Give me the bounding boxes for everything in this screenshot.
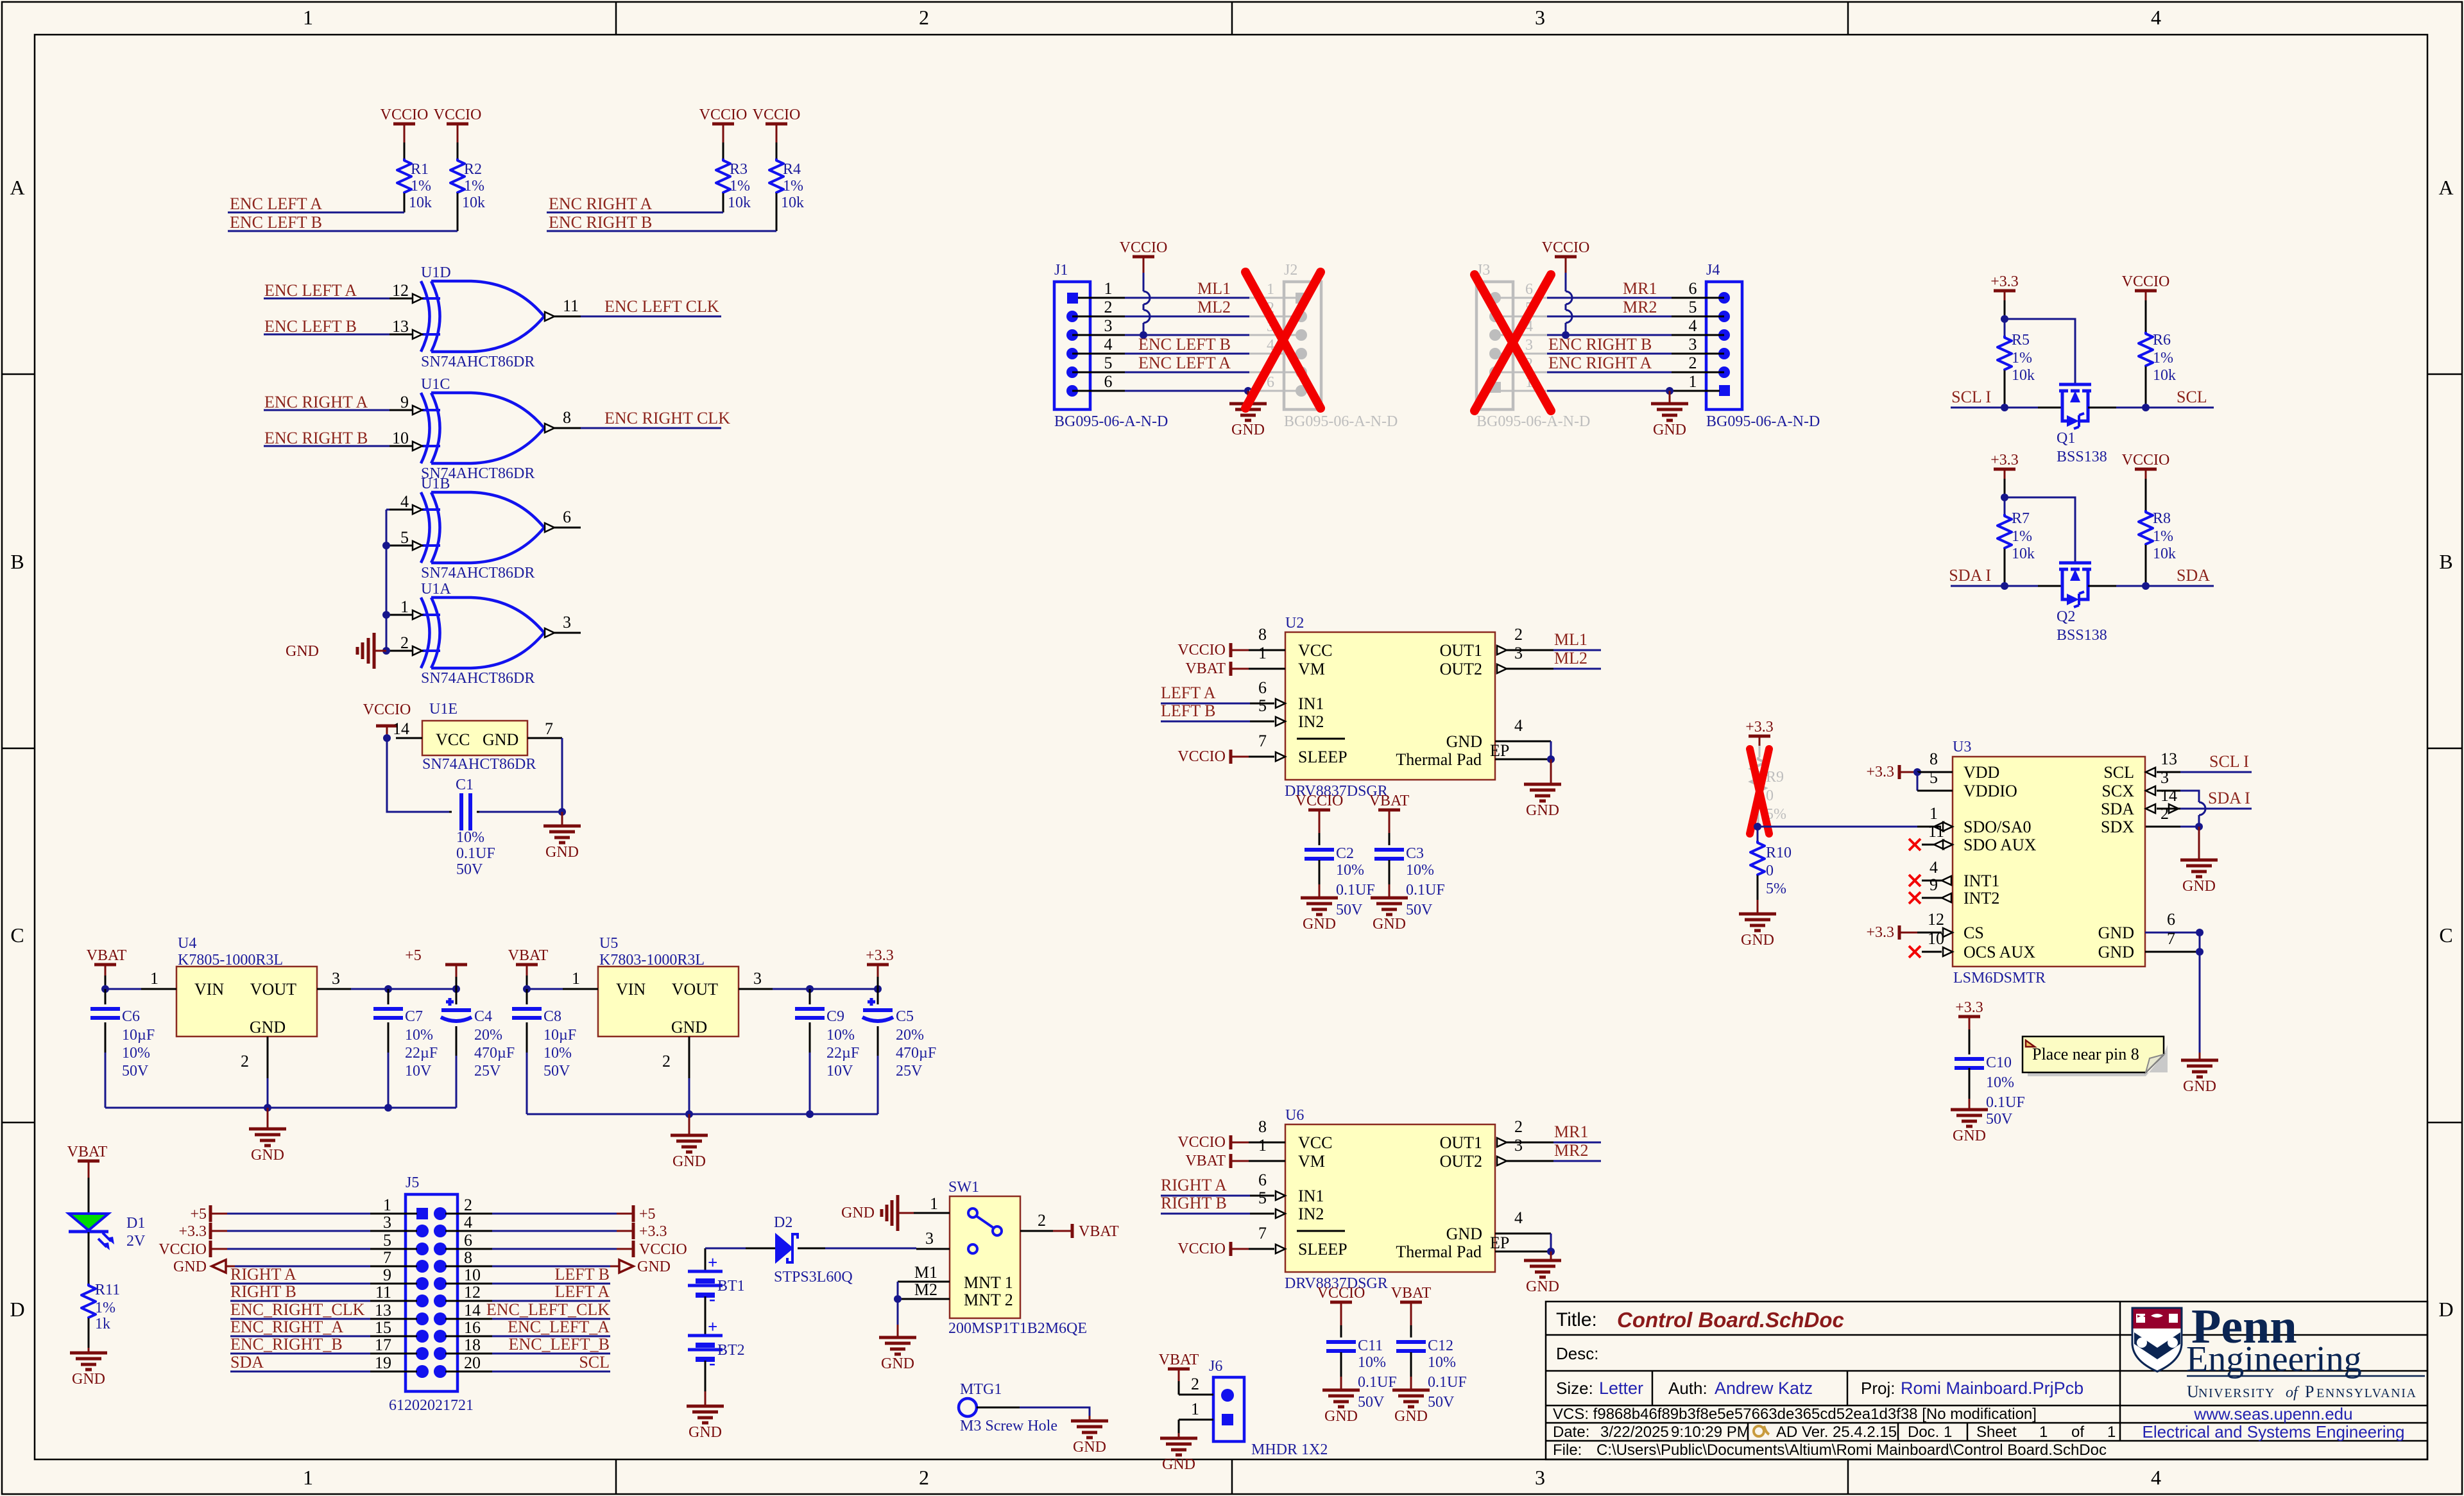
svg-text:8: 8 (464, 1248, 472, 1267)
pin 5 (1072, 372, 1125, 374)
svg-text:10k: 10k (462, 194, 485, 211)
svg-text:BG095-06-A-N-D: BG095-06-A-N-D (1476, 413, 1590, 430)
svg-text:ML1: ML1 (1197, 279, 1231, 298)
svg-text:4: 4 (1104, 335, 1113, 354)
svg-text:GND: GND (637, 1259, 671, 1275)
svg-text:U1A: U1A (421, 581, 451, 598)
resistor R4 (769, 159, 783, 193)
svg-text:14: 14 (393, 719, 409, 738)
power port VBAT (SW1) (1071, 1224, 1074, 1238)
junction (382, 647, 390, 655)
svg-text:VDDIO: VDDIO (1964, 782, 2017, 800)
wire net SCL (2088, 407, 2116, 409)
capacitor C11 (1326, 1340, 1356, 1344)
wire net ENC LEFT B (228, 230, 458, 232)
pin 2 (389, 650, 412, 652)
svg-text:10V: 10V (826, 1063, 853, 1079)
svg-text:10%: 10% (122, 1045, 150, 1062)
svg-text:J4: J4 (1706, 262, 1720, 279)
svg-text:1: 1 (1689, 372, 1697, 391)
svg-text:14: 14 (464, 1301, 481, 1320)
transistor Q2 BSS138 (2059, 562, 2091, 565)
svg-text:SCL: SCL (579, 1353, 610, 1371)
wire gate input bus (386, 510, 388, 651)
pin 14 (445, 1318, 492, 1320)
svg-text:GND: GND (2183, 1078, 2216, 1095)
svg-text:SDX: SDX (2101, 818, 2134, 836)
svg-text:10: 10 (464, 1266, 481, 1284)
capacitor C10 (1955, 1057, 1984, 1061)
svg-text:ENC RIGHT A: ENC RIGHT A (549, 194, 653, 213)
junction (2142, 404, 2150, 411)
svg-text:10k: 10k (409, 194, 432, 211)
ground GND (MTG1) (1071, 1420, 1108, 1423)
pin 13 (370, 1318, 417, 1320)
svg-text:10%: 10% (1986, 1074, 2014, 1091)
ground GND (U5) (689, 1114, 690, 1135)
wire bt1-bt2 (705, 1296, 706, 1336)
svg-text:ENC LEFT B: ENC LEFT B (1138, 335, 1231, 354)
svg-text:10%: 10% (405, 1027, 433, 1044)
svg-text:10k: 10k (2153, 546, 2176, 562)
svg-text:VCC: VCC (436, 730, 470, 749)
svg-text:File:: File: (1553, 1441, 1582, 1459)
svg-text:Desc:: Desc: (1556, 1344, 1598, 1363)
svg-text:11: 11 (1928, 822, 1944, 841)
svg-text:7: 7 (2167, 929, 2175, 948)
svg-text:R8: R8 (2153, 510, 2171, 527)
wire net ENC_LEFT_B (1125, 353, 1249, 355)
svg-text:8: 8 (1929, 750, 1938, 768)
svg-text:C8: C8 (543, 1008, 561, 1025)
svg-text:+3.3: +3.3 (178, 1223, 207, 1240)
svg-text:D1: D1 (126, 1215, 145, 1232)
wire mnt gnd (897, 1282, 899, 1299)
pin 8 (1249, 1142, 1285, 1144)
svg-text:RIGHT A: RIGHT A (1161, 1176, 1227, 1194)
svg-text:5%: 5% (1766, 881, 1786, 897)
svg-text:1%: 1% (95, 1300, 116, 1316)
svg-text:U1E: U1E (429, 701, 458, 718)
svg-text:9: 9 (383, 1266, 391, 1284)
svg-text:ENC RIGHT CLK: ENC RIGHT CLK (604, 409, 730, 427)
pin 5 (1250, 1213, 1274, 1215)
svg-text:10µF: 10µF (543, 1027, 576, 1044)
svg-text:R9: R9 (1766, 769, 1784, 786)
svg-text:17: 17 (375, 1336, 391, 1354)
svg-text:GND: GND (1394, 1408, 1428, 1425)
svg-text:2: 2 (662, 1052, 671, 1070)
wire U1E left/bottom (387, 738, 449, 812)
svg-text:R6: R6 (2153, 332, 2171, 348)
svg-text:10%: 10% (1428, 1354, 1456, 1371)
svg-text:1: 1 (303, 6, 313, 29)
wire net MR2 (1553, 1160, 1601, 1162)
pin EP (1495, 1251, 1551, 1253)
svg-text:SCL: SCL (2103, 763, 2134, 782)
junction (874, 985, 882, 993)
wire net ENC RIGHT B (264, 445, 389, 447)
svg-text:of: of (2071, 1423, 2084, 1441)
junction (382, 611, 390, 619)
pin 8 (1249, 649, 1285, 651)
svg-text:VBAT: VBAT (1369, 793, 1410, 809)
svg-text:SN74AHCT86DR: SN74AHCT86DR (421, 565, 535, 581)
svg-text:SN74AHCT86DR: SN74AHCT86DR (422, 756, 536, 773)
svg-text:GND: GND (1526, 802, 1559, 819)
wire net ML1 (1553, 649, 1601, 651)
wire net MR1 (1547, 297, 1672, 299)
svg-text:ENC LEFT A: ENC LEFT A (230, 194, 322, 213)
pin 1 (1249, 668, 1285, 670)
svg-text:3: 3 (2160, 768, 2169, 787)
pin 2 (267, 1036, 269, 1078)
svg-text:R3: R3 (730, 161, 748, 178)
svg-text:22µF: 22µF (405, 1045, 438, 1062)
svg-text:10%: 10% (826, 1027, 855, 1044)
ground GND (J1) (1247, 391, 1249, 404)
pin 3 (370, 1230, 417, 1232)
svg-text:OUT2: OUT2 (1440, 1152, 1482, 1171)
svg-text:10k: 10k (781, 194, 804, 211)
svg-text:VCCIO: VCCIO (158, 1241, 207, 1258)
junction (2001, 582, 2008, 590)
junction (2001, 315, 2008, 323)
svg-text:2: 2 (1514, 625, 1523, 644)
IC U5 K7803-1000R3L (598, 967, 739, 1036)
svg-text:CS: CS (1964, 924, 1984, 942)
svg-text:1%: 1% (2153, 528, 2173, 545)
junction (806, 1110, 814, 1118)
svg-text:GND: GND (841, 1205, 875, 1221)
svg-text:VCCIO: VCCIO (1177, 1134, 1226, 1151)
svg-text:2V: 2V (126, 1233, 146, 1250)
pin 2 (1020, 1230, 1053, 1232)
pin 7 (1249, 756, 1274, 758)
battery BT2 (688, 1334, 723, 1337)
svg-text:Q1: Q1 (2057, 430, 2075, 447)
junction (2196, 948, 2203, 956)
svg-text:+: + (708, 1253, 717, 1272)
svg-text:VCS: f9868b46f89b3f8e5e57663d: VCS: f9868b46f89b3f8e5e57663de365cd52ea1… (1553, 1406, 2037, 1423)
svg-text:GND: GND (173, 1259, 207, 1275)
svg-text:8: 8 (1258, 1117, 1267, 1136)
resistor R8 (2145, 479, 2147, 510)
pin 5 (1250, 721, 1274, 723)
svg-text:2: 2 (1038, 1211, 1046, 1230)
svg-text:GND: GND (2098, 924, 2134, 942)
svg-text:22µF: 22µF (826, 1045, 859, 1062)
pin 13 (389, 334, 412, 336)
svg-text:GND: GND (1073, 1439, 1106, 1456)
wire net ENC_LEFT_A (492, 1336, 610, 1337)
XOR gate U1B (421, 492, 544, 563)
svg-text:0: 0 (1766, 787, 1774, 804)
svg-text:8: 8 (563, 408, 571, 427)
svg-text:U: U (2187, 1382, 2199, 1401)
svg-text:+3.3: +3.3 (866, 947, 894, 964)
wire net ENC_LEFT_CLK (492, 1318, 610, 1320)
junction (2001, 404, 2008, 411)
svg-text:1: 1 (930, 1194, 938, 1213)
ground GND (C10) (1951, 1108, 1988, 1112)
svg-text:C: C (2439, 924, 2452, 947)
wire net ENC RIGHT A (547, 212, 723, 214)
svg-text:-: - (709, 1288, 715, 1309)
svg-text:OUT1: OUT1 (1440, 1133, 1482, 1152)
svg-text:20: 20 (464, 1354, 481, 1372)
junction (558, 808, 566, 816)
svg-text:470µF: 470µF (474, 1045, 515, 1062)
pin 9 (1909, 892, 1921, 904)
junction (2001, 494, 2008, 501)
IC U1E SN74AHCT86DR (422, 721, 527, 755)
svg-text:0: 0 (1766, 863, 1774, 879)
wire net ML1 (1125, 297, 1249, 299)
pin 13 (2146, 768, 2155, 777)
svg-text:10k: 10k (2012, 367, 2035, 384)
svg-text:ENC LEFT A: ENC LEFT A (264, 281, 357, 300)
svg-text:C9: C9 (826, 1008, 844, 1025)
svg-text:J1: J1 (1054, 262, 1068, 279)
wire net SDO/SA0 (1758, 826, 1917, 828)
svg-text:1: 1 (1258, 1136, 1267, 1155)
wire net RIGHT B (230, 1300, 370, 1302)
connector J3 BG095-06-A-N-D (not fitted) (1476, 282, 1513, 409)
svg-text:1: 1 (1104, 279, 1113, 298)
svg-text:4: 4 (1689, 316, 1697, 335)
svg-text:25V: 25V (474, 1063, 501, 1079)
wire net ENC_RIGHT_CLK (230, 1318, 370, 1320)
wire cap stubs (449, 811, 452, 813)
Penn Engineering logo (2132, 1308, 2182, 1371)
wire net SDA (230, 1371, 370, 1373)
wire gate feed (2005, 319, 2075, 386)
pin 11 (370, 1300, 417, 1302)
svg-text:OCS AUX: OCS AUX (1964, 943, 2035, 961)
wire net ENC RIGHT A (264, 409, 389, 411)
svg-text:MHDR 1X2: MHDR 1X2 (1251, 1441, 1328, 1458)
svg-text:C7: C7 (405, 1008, 423, 1025)
svg-text:LEFT A: LEFT A (1161, 684, 1216, 702)
capacitor C6 (105, 989, 107, 1004)
svg-text:D: D (2438, 1298, 2453, 1321)
svg-text:11: 11 (375, 1283, 391, 1302)
svg-text:C10: C10 (1986, 1054, 2012, 1071)
pin 11 (1909, 839, 1921, 850)
svg-text:12: 12 (392, 281, 409, 300)
pin 8 (1917, 771, 1953, 773)
svg-text:0.1UF: 0.1UF (456, 845, 495, 862)
pin 8 (445, 1266, 492, 1268)
wire bt2 gnd (705, 1361, 706, 1391)
ground GND (C3) (1371, 897, 1408, 900)
svg-text:GND: GND (286, 643, 319, 660)
svg-text:50V: 50V (543, 1063, 570, 1079)
svg-text:18: 18 (464, 1336, 481, 1354)
svg-text:VDD: VDD (1964, 763, 1999, 782)
svg-text:VOUT: VOUT (672, 980, 718, 999)
svg-text:1%: 1% (464, 178, 484, 194)
capacitor C7 (388, 989, 389, 1004)
svg-text:+3.3: +3.3 (1990, 452, 2019, 469)
svg-text:VBAT: VBAT (1159, 1352, 1199, 1368)
svg-text:GND: GND (250, 1018, 286, 1036)
svg-text:15: 15 (375, 1318, 391, 1337)
pin 1 (928, 1212, 950, 1214)
capacitor C5 (polarized) (877, 989, 879, 1004)
svg-text:20%: 20% (896, 1027, 924, 1044)
junction (1754, 823, 1761, 830)
svg-text:10: 10 (392, 429, 409, 447)
svg-text:4: 4 (1514, 1208, 1523, 1227)
svg-text:K7805-1000R3L: K7805-1000R3L (178, 952, 283, 968)
pin 12 (445, 1300, 492, 1302)
pin 5 (389, 545, 412, 547)
svg-text:GND: GND (672, 1153, 706, 1170)
wire pin3 (227, 1230, 370, 1232)
wire pin2 (492, 1213, 617, 1215)
svg-text:M1: M1 (914, 1263, 937, 1282)
resistor R2 (450, 159, 465, 193)
svg-text:ENC LEFT B: ENC LEFT B (264, 317, 357, 336)
pin 1 (389, 614, 412, 616)
svg-text:SW1: SW1 (948, 1179, 979, 1196)
svg-text:0.1UF: 0.1UF (1336, 882, 1375, 898)
resistor R7 (2004, 497, 2006, 514)
svg-text:R1: R1 (411, 161, 429, 178)
svg-text:3: 3 (1689, 335, 1697, 354)
svg-text:BT2: BT2 (717, 1342, 745, 1359)
svg-text:6: 6 (1689, 279, 1697, 298)
wire gate feed (2005, 497, 2075, 564)
svg-text:10%: 10% (456, 829, 484, 846)
svg-text:+5: +5 (405, 947, 422, 964)
svg-text:+3.3: +3.3 (1990, 273, 2019, 290)
svg-text:+3.3: +3.3 (1745, 719, 1774, 735)
wire vdd to vddio (1917, 772, 1919, 791)
svg-text:GND: GND (1231, 422, 1265, 438)
wire net SCL (492, 1371, 610, 1373)
svg-text:1k: 1k (95, 1316, 110, 1332)
wire J4 pin4 (1547, 334, 1672, 336)
svg-text:U1C: U1C (421, 376, 450, 393)
wire pin1 (227, 1213, 370, 1215)
svg-text:MR1: MR1 (1554, 1122, 1588, 1141)
pin 8 (545, 424, 554, 433)
svg-text:13: 13 (375, 1301, 391, 1320)
svg-text:2: 2 (1104, 298, 1113, 316)
svg-text:470µF: 470µF (896, 1045, 936, 1062)
pin 3 (1497, 1156, 1507, 1165)
svg-text:VCCIO: VCCIO (1177, 642, 1226, 658)
svg-text:4: 4 (2151, 1466, 2161, 1489)
wire scx loop (2180, 791, 2199, 802)
svg-text:Letter: Letter (1599, 1379, 1643, 1398)
svg-text:MR2: MR2 (1554, 1141, 1588, 1160)
svg-text:4: 4 (400, 492, 409, 511)
ground GND (C2) (1301, 897, 1338, 900)
svg-text:+3.3: +3.3 (1955, 999, 1983, 1016)
svg-text:3: 3 (383, 1213, 391, 1232)
capacitor C2 (1305, 848, 1334, 852)
svg-text:SCL I: SCL I (2209, 752, 2249, 771)
svg-text:ENNSYLVANIA: ENNSYLVANIA (2316, 1386, 2417, 1400)
svg-text:1%: 1% (411, 178, 431, 194)
junction (806, 985, 814, 993)
svg-text:MR2: MR2 (1623, 298, 1657, 316)
wire net ENC LEFT CLK (581, 316, 721, 318)
svg-text:Auth:: Auth: (1668, 1379, 1707, 1398)
capacitor C8 (526, 989, 528, 1004)
pin 3 (1072, 334, 1125, 336)
pin 7 (370, 1266, 417, 1268)
svg-text:ENC LEFT CLK: ENC LEFT CLK (604, 297, 719, 316)
svg-text:11: 11 (563, 297, 579, 315)
pin 18 (445, 1353, 492, 1355)
wire net ML2 (1125, 316, 1249, 318)
svg-text:IN1: IN1 (1298, 694, 1324, 713)
svg-text:U1B: U1B (421, 476, 450, 492)
svg-text:GND: GND (1303, 916, 1336, 933)
wire EP to GND (1550, 1234, 1552, 1251)
svg-text:200MSP1T1B2M6QE: 200MSP1T1B2M6QE (948, 1320, 1087, 1337)
svg-text:VCCIO: VCCIO (1317, 1285, 1365, 1302)
wire mtg1 gnd (977, 1407, 1020, 1409)
wire gnd bus (689, 1078, 690, 1114)
LED D1 (69, 1214, 108, 1230)
IC U3 LSM6DSMTR (1953, 757, 2145, 967)
wire mnt down (897, 1299, 899, 1325)
wire net RIGHT B (1161, 1213, 1250, 1215)
svg-text:5: 5 (1689, 298, 1697, 316)
pin 3 (1672, 353, 1724, 355)
svg-text:GND: GND (1526, 1278, 1559, 1295)
svg-text:VCCIO: VCCIO (2122, 452, 2170, 469)
svg-text:U4: U4 (178, 935, 196, 952)
svg-text:RIGHT B: RIGHT B (1161, 1194, 1227, 1212)
svg-text:GND: GND (483, 730, 518, 749)
svg-text:ENC RIGHT B: ENC RIGHT B (264, 429, 368, 447)
svg-text:12: 12 (464, 1283, 481, 1302)
svg-text:C6: C6 (122, 1008, 140, 1025)
pin 6 (1250, 703, 1274, 705)
junction (2195, 823, 2203, 830)
wire VCCIO stem with hops (1143, 273, 1145, 291)
pin M2 (898, 1298, 950, 1300)
svg-text:3: 3 (1514, 1136, 1523, 1155)
svg-text:2: 2 (1514, 1117, 1523, 1136)
svg-text:SDA: SDA (230, 1353, 264, 1371)
svg-text:+5: +5 (639, 1206, 656, 1223)
svg-text:2: 2 (464, 1196, 472, 1214)
wire EP to GND (1550, 741, 1552, 759)
svg-text:VCC: VCC (1298, 641, 1332, 660)
svg-text:3: 3 (1535, 1466, 1545, 1489)
junction (101, 985, 109, 993)
pin 5 (370, 1248, 417, 1250)
pin 2 (1497, 1138, 1507, 1147)
svg-text:C: C (10, 924, 24, 947)
svg-text:IN2: IN2 (1298, 712, 1324, 731)
svg-text:20%: 20% (474, 1027, 502, 1044)
pin 10 (389, 445, 412, 447)
svg-text:0.1UF: 0.1UF (1986, 1094, 2025, 1111)
wire led to r11 (88, 1232, 90, 1284)
pin 7 (1249, 1248, 1274, 1250)
svg-text:+3.3: +3.3 (1866, 924, 1894, 941)
ground GND (SW1 mnt) (879, 1336, 916, 1339)
